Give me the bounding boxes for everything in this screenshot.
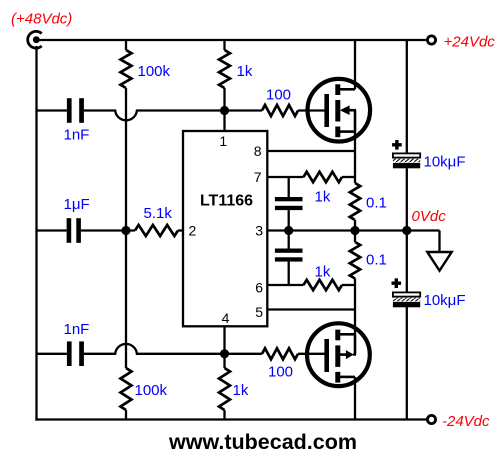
ground bbox=[427, 252, 451, 271]
wire right rail upper segment bbox=[406, 40, 408, 153]
wire top rail (+48 to +24 terminal) bbox=[36, 39, 427, 41]
terminal (+48Vdc) input jack bbox=[28, 31, 42, 48]
svg-text:3: 3 bbox=[255, 223, 263, 239]
wire 0.1 lower down to Q2 source bbox=[354, 279, 356, 335]
svg-text:1k: 1k bbox=[315, 264, 331, 281]
svg-text:10kμF: 10kμF bbox=[424, 292, 466, 309]
wire pin 8 bbox=[267, 150, 355, 152]
junction dot output node / right rail bbox=[402, 226, 411, 235]
wire 100 to gate of Q2 bbox=[298, 353, 327, 355]
resistor 1k pin6 bbox=[304, 280, 343, 290]
junction dot gate row / pin1 column bbox=[220, 106, 229, 115]
svg-text:10kμF: 10kμF bbox=[424, 154, 466, 171]
wire pin 7 bbox=[267, 176, 303, 178]
capacitor 1nF lower bbox=[67, 341, 84, 366]
resistor 100k upper bbox=[121, 40, 132, 88]
wire Q2 drain to bottom rail bbox=[354, 377, 356, 420]
wire input row left of cap bbox=[37, 229, 67, 231]
svg-text:-24Vdc: -24Vdc bbox=[442, 413, 490, 430]
svg-text:1k: 1k bbox=[315, 189, 331, 206]
wire 0.1 upper to output node bbox=[354, 220, 356, 242]
wire lower gate row cap to dot with hop over center column bbox=[84, 344, 262, 354]
resistor 5.1k bbox=[135, 225, 178, 236]
wire 1k pin6 to source column bbox=[342, 284, 355, 286]
capacitor 10kuF lower bbox=[392, 278, 421, 307]
resistor 1k pin7 bbox=[304, 172, 343, 182]
svg-text:100k: 100k bbox=[135, 382, 168, 399]
wire right rail lower segment bbox=[406, 306, 408, 419]
wire left rail bbox=[35, 46, 37, 421]
wire pin 3 output row bbox=[267, 229, 439, 231]
wire pin 6 bbox=[267, 284, 303, 286]
wire input cap to 5.1k bbox=[81, 229, 135, 231]
wire IC pin 4 to dot bbox=[223, 326, 225, 368]
wire Q1 source column bbox=[354, 132, 356, 183]
svg-text:5: 5 bbox=[255, 304, 263, 320]
svg-text:100: 100 bbox=[266, 87, 291, 104]
svg-text:1nF: 1nF bbox=[64, 127, 90, 144]
resistor 100 lower bbox=[262, 348, 298, 359]
resistor 100k lower bbox=[121, 368, 132, 420]
junction dot output node / 0.1 resistors bbox=[350, 226, 359, 235]
wire pin 5 bbox=[267, 308, 355, 310]
svg-text:5.1k: 5.1k bbox=[144, 205, 173, 222]
svg-text:+24Vdc: +24Vdc bbox=[444, 34, 496, 51]
svg-text:0.1: 0.1 bbox=[366, 195, 387, 212]
transistor Q1 (upper N-channel MOSFET) bbox=[308, 79, 371, 142]
svg-text:6: 6 bbox=[255, 280, 263, 296]
wire right rail middle segment bbox=[406, 168, 408, 292]
terminal -24Vdc bbox=[427, 415, 435, 423]
capacitor 1uF input bbox=[67, 218, 81, 243]
wire upper gate row cap to hop with hop over center column bbox=[84, 111, 262, 121]
wire upper gate row left of cap bbox=[37, 109, 67, 111]
wire 100 to gate of Q1 bbox=[298, 109, 327, 111]
svg-text:(+48Vdc): (+48Vdc) bbox=[11, 11, 72, 28]
svg-text:1μF: 1μF bbox=[64, 196, 90, 213]
capacitor 1nF upper bbox=[67, 98, 84, 123]
svg-text:0.1: 0.1 bbox=[366, 252, 387, 269]
wire 1k pin7 to source column bbox=[342, 176, 355, 178]
svg-text:1k: 1k bbox=[237, 63, 253, 80]
svg-text:1nF: 1nF bbox=[64, 321, 90, 338]
svg-text:100k: 100k bbox=[138, 63, 171, 80]
op-amp U1 LT1166 body bbox=[183, 131, 267, 326]
resistor 100 upper bbox=[262, 105, 298, 116]
svg-text:8: 8 bbox=[254, 143, 262, 159]
junction dot gate row / pin4 column bbox=[220, 349, 229, 358]
junction dot input node bbox=[121, 226, 130, 235]
terminal +24Vdc bbox=[427, 36, 435, 44]
wire center column (100k to input node to 100k) bbox=[125, 88, 127, 368]
svg-text:1: 1 bbox=[219, 133, 227, 149]
resistor 1k lower bbox=[219, 368, 230, 420]
wire Q1 drain to top rail bbox=[354, 40, 356, 89]
svg-text:1k: 1k bbox=[233, 382, 249, 399]
svg-text:100: 100 bbox=[268, 364, 293, 381]
svg-text:2: 2 bbox=[189, 223, 197, 239]
capacitor pin6 compensation bbox=[275, 249, 303, 286]
resistor 0.1 lower bbox=[350, 242, 360, 279]
resistor 0.1 upper bbox=[350, 183, 360, 220]
wire output down to ground bbox=[438, 231, 440, 253]
svg-text:LT1166: LT1166 bbox=[200, 193, 253, 210]
wire bottom rail bbox=[35, 418, 427, 420]
svg-text:0Vdc: 0Vdc bbox=[412, 208, 447, 225]
resistor 1k upper bbox=[219, 40, 230, 88]
svg-text:4: 4 bbox=[222, 310, 230, 326]
wire 5.1k to IC pin 2 bbox=[178, 229, 183, 231]
svg-text:7: 7 bbox=[254, 169, 262, 185]
capacitor 10kuF upper bbox=[392, 140, 420, 168]
junction dot compensation caps / pin 3 bbox=[284, 226, 293, 235]
wire lower gate row left of cap bbox=[37, 353, 67, 355]
transistor Q2 (lower P-channel MOSFET) bbox=[307, 323, 370, 386]
wire pin1 column (1k down to dot and IC pin 1) bbox=[223, 88, 225, 131]
capacitor pin7 compensation bbox=[275, 177, 303, 249]
svg-text:www.tubecad.com: www.tubecad.com bbox=[168, 430, 357, 454]
